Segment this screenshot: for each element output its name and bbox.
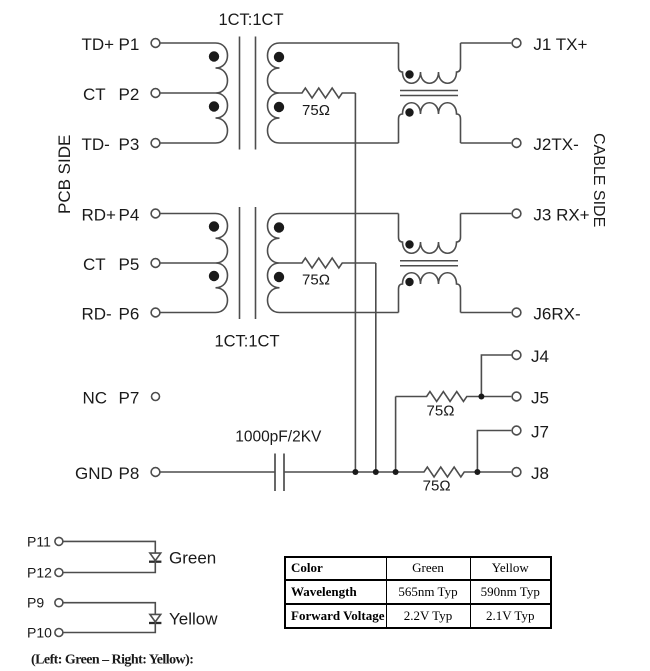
resistor R1 75ohm zigzag (280, 88, 356, 98)
choke L1 polarity dot top (405, 70, 413, 78)
wire T1 secondary bottom to choke L1 (280, 142, 399, 144)
terminal circle J6 (512, 308, 521, 317)
wire P3 to T1 primary bottom (160, 142, 215, 144)
wire P11 to LED D1 (63, 541, 155, 553)
svg-text:75Ω: 75Ω (302, 271, 330, 288)
wire choke L2 to J3 (461, 213, 512, 215)
choke L1 top winding (399, 43, 461, 83)
svg-text:J3 RX+: J3 RX+ (533, 206, 589, 225)
wire P4 to T2 primary top (160, 213, 215, 215)
junction dot R1/ground bus (352, 469, 358, 475)
junction dot R2/ground bus (373, 469, 379, 475)
terminal circle J3 (512, 209, 521, 218)
svg-text:NC: NC (83, 389, 108, 408)
svg-text:P11: P11 (27, 533, 51, 549)
svg-text:J1 TX+: J1 TX+ (533, 35, 587, 54)
svg-text:1CT:1CT: 1CT:1CT (218, 11, 283, 29)
LED D2 cathode bar (149, 622, 161, 624)
terminal circle J2 (512, 139, 521, 148)
LED characteristics table (284, 556, 552, 629)
choke L2 core (400, 260, 458, 262)
pin circle P7 (152, 393, 160, 401)
wire P1 to T1 primary top (160, 42, 215, 44)
pin circle P9 (55, 599, 63, 607)
pin circle P4 (151, 209, 160, 218)
T2 secondary polarity dot upper (274, 222, 284, 232)
svg-text:(Left: Green – Right: Yellow):: (Left: Green – Right: Yellow): (31, 652, 193, 667)
svg-text:CT: CT (83, 255, 106, 274)
terminal circle J7 (512, 426, 521, 435)
choke L2 polarity dot top (405, 240, 413, 248)
svg-text:Green: Green (169, 549, 216, 568)
pin circle P10 (55, 629, 63, 637)
choke L1 bottom winding (399, 103, 461, 143)
svg-text:TD+: TD+ (82, 35, 115, 54)
svg-text:75Ω: 75Ω (427, 402, 455, 419)
svg-text:J2TX-: J2TX- (533, 135, 578, 154)
choke L2 bottom winding (399, 273, 461, 313)
wire P9 to LED D2 (63, 603, 155, 615)
wire R2 to ground bus (375, 263, 377, 472)
svg-text:J7: J7 (531, 423, 549, 442)
capacitor C1 plates (274, 454, 276, 492)
svg-text:P2: P2 (119, 85, 140, 104)
svg-text:75Ω: 75Ω (423, 477, 451, 494)
svg-text:Yellow: Yellow (169, 610, 218, 629)
junction dot R3/ground bus (393, 469, 399, 475)
T1 primary polarity dot lower (209, 101, 219, 111)
svg-text:P3: P3 (119, 135, 140, 154)
junction dot J4 node/J5 row (478, 394, 484, 400)
transformer T1 core (239, 37, 241, 150)
svg-text:J5: J5 (531, 389, 549, 408)
terminal circle J4 (512, 351, 521, 360)
choke L1 core (400, 90, 458, 92)
T1 secondary polarity dot lower (274, 102, 284, 112)
svg-text:P7: P7 (119, 389, 140, 408)
T2 primary polarity dot lower (209, 271, 219, 281)
wire J7 to node at J8 row (477, 431, 511, 473)
terminal circle J5 (512, 392, 521, 401)
transformer T2 secondary winding (268, 214, 280, 313)
wire T1 secondary top to choke L1 (280, 42, 399, 44)
svg-text:J8: J8 (531, 464, 549, 483)
wire choke L2 to J6 (461, 312, 512, 314)
transformer T1 primary winding (216, 43, 228, 143)
choke L2 polarity dot bottom (405, 278, 413, 286)
T2 primary polarity dot upper (209, 221, 219, 231)
svg-text:CABLE SIDE: CABLE SIDE (590, 133, 607, 227)
svg-text:1000pF/2KV: 1000pF/2KV (235, 428, 322, 445)
T1 primary polarity dot upper (209, 51, 219, 61)
svg-text:RD-: RD- (82, 305, 112, 324)
svg-text:J6RX-: J6RX- (533, 305, 580, 324)
ground bus wire with resistor R4 75ohm zigzag to J8 (284, 467, 511, 477)
terminal circle J1 (512, 39, 521, 48)
wire R1 to ground bus (354, 93, 356, 472)
wire T2 secondary bottom to choke L2 (280, 312, 399, 314)
transformer T2 primary winding (216, 214, 228, 313)
wire P8 to capacitor C1 (160, 471, 275, 473)
svg-text:P6: P6 (119, 305, 140, 324)
svg-text:CT: CT (83, 85, 106, 104)
svg-text:RD+: RD+ (82, 206, 117, 225)
svg-text:75Ω: 75Ω (302, 102, 330, 119)
T2 secondary polarity dot lower (274, 272, 284, 282)
wire LED D1 to P12 (63, 561, 155, 573)
LED D2 yellow triangle (150, 614, 161, 622)
choke L1 polarity dot bottom (405, 108, 413, 116)
transformer T2 core (239, 207, 241, 319)
LED D1 green triangle (150, 553, 161, 561)
choke L2 top winding (399, 214, 461, 254)
svg-text:TD-: TD- (82, 135, 110, 154)
pin circle P3 (151, 139, 160, 148)
svg-text:P9: P9 (27, 595, 44, 611)
svg-text:1CT:1CT: 1CT:1CT (214, 333, 279, 351)
junction dot J7 node/ground bus (474, 469, 480, 475)
wire choke L1 to J2 (461, 142, 512, 144)
wire P6 to T2 primary bottom (160, 312, 215, 314)
wire P5 to T2 primary center tap (160, 262, 215, 264)
svg-text:GND: GND (75, 464, 113, 483)
svg-text:P12: P12 (27, 565, 52, 581)
pin circle P2 (151, 89, 160, 98)
pin circle P11 (55, 537, 63, 545)
wire LED D2 to P10 (63, 622, 155, 633)
wire R3 to ground bus (395, 397, 397, 473)
LED D1 cathode bar (149, 561, 161, 563)
wire J4 to node at J5 row (481, 355, 512, 397)
pin circle P5 (151, 259, 160, 268)
svg-text:J4: J4 (531, 347, 549, 366)
wire P2 to T1 primary center tap (160, 92, 215, 94)
T1 secondary polarity dot upper (274, 52, 284, 62)
wire T2 secondary top to choke L2 (280, 213, 399, 215)
pin circle P8 (151, 468, 160, 477)
terminal circle J8 (512, 468, 521, 477)
pin circle P12 (55, 569, 63, 577)
wire choke L1 to J1 (461, 42, 512, 44)
transformer T1 secondary winding (268, 43, 280, 143)
svg-text:P8: P8 (119, 464, 140, 483)
svg-text:P5: P5 (119, 255, 140, 274)
pin circle P6 (151, 308, 160, 317)
resistor R3 75ohm zigzag (396, 392, 512, 402)
svg-text:P10: P10 (27, 625, 52, 641)
svg-text:P4: P4 (119, 206, 140, 225)
svg-text:PCB SIDE: PCB SIDE (55, 135, 74, 214)
pin circle P1 (151, 39, 160, 48)
resistor R2 75ohm zigzag (280, 258, 376, 268)
svg-text:P1: P1 (119, 35, 140, 54)
